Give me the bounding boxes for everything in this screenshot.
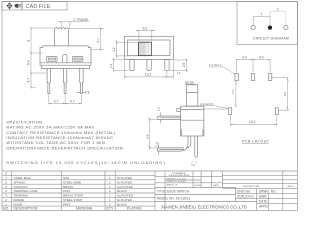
svg-text:PLATING: PLATING: [127, 207, 142, 211]
svg-text:2-1.6x1.5: 2-1.6x1.5: [200, 102, 213, 106]
svg-text:CONTACT: CONTACT: [14, 185, 28, 189]
svg-text:5.6: 5.6: [283, 92, 287, 97]
svg-text:PCB LAYOUT: PCB LAYOUT: [242, 139, 270, 143]
svg-text:4.7: 4.7: [26, 78, 30, 83]
svg-text:Ni PLATED: Ni PLATED: [117, 180, 133, 184]
svg-text:0.8: 0.8: [85, 90, 90, 94]
svg-text:UNIT:mm: UNIT:mm: [237, 189, 251, 193]
svg-text:MODEL NO: SS-12D11: MODEL NO: SS-12D11: [157, 196, 190, 200]
svg-text:2.1: 2.1: [191, 163, 195, 167]
svg-text:2: 2: [277, 8, 279, 12]
svg-text:4.0: 4.0: [259, 55, 264, 59]
svg-text:SCALE:N S: SCALE:N S: [237, 194, 254, 198]
svg-text:QTY: QTY: [106, 207, 114, 211]
svg-text:DRWG. NO.: DRWG. NO.: [259, 189, 277, 193]
svg-text:Ø2.98: Ø2.98: [185, 80, 194, 84]
svg-text:OPERATIONFORCE:REFERATTACH SPE: OPERATIONFORCE:REFERATTACH SPECIFICATION: [6, 145, 123, 150]
svg-text:13.2: 13.2: [145, 73, 152, 77]
svg-text:3-1.6x1.1: 3-1.6x1.1: [209, 63, 222, 67]
svg-text:1.2: 1.2: [154, 142, 158, 147]
svg-text:4.2: 4.2: [112, 47, 116, 52]
svg-text:Ag PLATED: Ag PLATED: [117, 194, 134, 198]
svg-text:PA6T: PA6T: [63, 202, 70, 206]
svg-text:UNLESS SPECIFIED: UNLESS SPECIFIED: [169, 175, 190, 177]
svg-text:DATE: DATE: [259, 199, 267, 203]
svg-text:NO.: NO.: [3, 207, 9, 211]
svg-text:STEEL WIRE: STEEL WIRE: [63, 180, 81, 184]
svg-text:BLACK: BLACK: [117, 189, 127, 193]
svg-text:WITHIN 1.0 ±0.1mm: WITHIN 1.0 ±0.1mm: [167, 178, 187, 180]
svg-text:BRASS: BRASS: [63, 185, 73, 189]
svg-text:TITLE:SLIDE SWITCH: TITLE:SLIDE SWITCH: [157, 189, 190, 193]
svg-text:4.7: 4.7: [70, 99, 75, 103]
svg-text:STEEL BALL: STEEL BALL: [14, 176, 32, 180]
svg-text:8: 8: [26, 40, 30, 42]
svg-text:Ag PLATED: Ag PLATED: [117, 185, 134, 189]
svg-text:2.6: 2.6: [182, 63, 186, 68]
svg-text:5.8: 5.8: [145, 134, 149, 139]
svg-text:1: 1: [261, 12, 263, 16]
svg-text:Ni PLATED: Ni PLATED: [117, 176, 133, 180]
svg-text:SWITCHING LIFE:10,000 CYCLES(1: SWITCHING LIFE:10,000 CYCLES(15~18C/M UN…: [6, 160, 165, 165]
svg-text:2 TRAVEL: 2 TRAVEL: [74, 18, 90, 22]
svg-text:2.5: 2.5: [109, 63, 113, 68]
svg-text:SPRING: SPRING: [14, 180, 26, 184]
svg-text:6.2: 6.2: [143, 26, 148, 30]
svg-text:EDGE: EDGE: [195, 185, 202, 187]
svg-text:1.0: 1.0: [157, 107, 161, 112]
svg-text:XIAMEN JINBEILI ELECTRONICS CO: XIAMEN JINBEILI ELECTRONICS CO.,LTD: [161, 204, 247, 209]
svg-text:7.0: 7.0: [231, 89, 235, 94]
svg-text:1.3: 1.3: [177, 71, 181, 75]
svg-text:MATERIAL: MATERIAL: [76, 207, 93, 211]
svg-text:OVER 1.0. ±0.2mm: OVER 1.0. ±0.2mm: [167, 181, 186, 183]
svg-text:BRASS STRIP: BRASS STRIP: [63, 194, 83, 198]
svg-text:4.0: 4.0: [242, 55, 247, 59]
svg-text:DATE: DATE: [213, 184, 219, 187]
svg-text:APPD: APPD: [288, 185, 294, 188]
svg-text:DWR: DWR: [259, 194, 267, 198]
svg-text:PA6T: PA6T: [63, 189, 70, 193]
svg-text:ANGLE ±3°: ANGLE ±3°: [167, 184, 178, 187]
svg-text:CAD FILE:: CAD FILE:: [26, 4, 52, 10]
svg-text:APPD: APPD: [259, 204, 268, 208]
svg-text:6.7: 6.7: [96, 38, 100, 43]
svg-text:BLACK: BLACK: [117, 202, 127, 206]
svg-text:6.4: 6.4: [26, 60, 30, 65]
svg-text:SUS: SUS: [63, 176, 69, 180]
svg-text:TERMINAL CASE: TERMINAL CASE: [14, 189, 38, 193]
svg-text:CIRCUIT DIAGRAM: CIRCUIT DIAGRAM: [253, 37, 289, 41]
svg-text:4.7: 4.7: [54, 99, 59, 103]
svg-text:DESCRIPTION: DESCRIPTION: [14, 207, 38, 211]
svg-text:DESCRIPTIONS: DESCRIPTIONS: [243, 186, 260, 188]
svg-text:TERMINAL: TERMINAL: [14, 194, 30, 198]
svg-text:13.2: 13.2: [249, 120, 256, 124]
